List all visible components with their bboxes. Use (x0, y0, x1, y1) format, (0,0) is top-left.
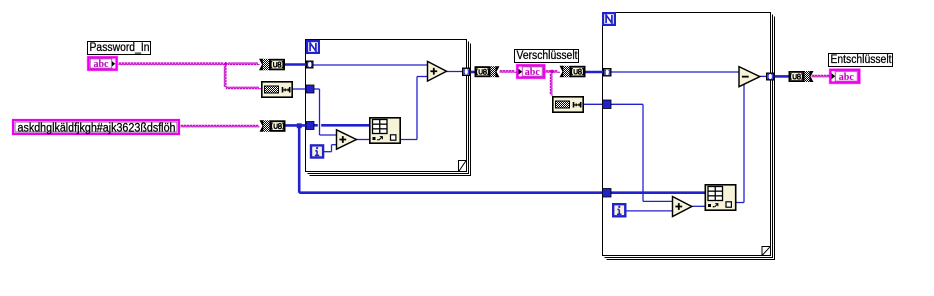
wire string Byte-Array-To-String 2 to Entschlüsselt (812, 75, 830, 77)
svg-text:Verschlüsselt: Verschlüsselt (517, 50, 579, 62)
tunnel loop2 length in (603, 100, 612, 109)
wire length tunnel to elbow to add A1 (313, 89, 337, 135)
wire string Byte-Array-To-String 1 to Verschlüsselt (500, 71, 517, 73)
for loop 1 count terminal N (306, 40, 320, 54)
junction key bytes (297, 123, 302, 128)
for loop 2 count terminal N (602, 12, 616, 26)
wire key array inside loop1 to Index Array 1 (314, 124, 371, 127)
for loop 1 border (306, 40, 471, 176)
junction Verschlüsselt wire (550, 69, 555, 74)
wire loop1 indexed byte to add A2 (313, 64, 428, 66)
tunnel loop2 auto-index out (766, 73, 775, 81)
node add A1 (337, 130, 357, 149)
label Entschlüsselt (829, 54, 893, 67)
wire string junction down (224, 66, 226, 88)
wire key bytes bottom run to loop2 (299, 191, 603, 194)
wire length tunnel2 elbow to add A3 (611, 104, 674, 201)
wire string junction 2 down to String Length 2 (550, 74, 552, 97)
wire byte-array U1 to loop1 tunnel (284, 63, 306, 66)
tunnel loop1 auto-index in (password) (306, 61, 314, 69)
for loop 2 border (603, 13, 775, 260)
svg-text:Entschlüsselt: Entschlüsselt (831, 54, 893, 66)
wire Index Array 2 out up to subtract (736, 84, 745, 202)
svg-text:Password_In: Password_In (90, 42, 150, 54)
node subtract SB1 (739, 67, 760, 87)
tunnel loop1 auto-index out (462, 68, 471, 77)
node Index Array IA2 (705, 185, 735, 210)
wire loop2 out tunnel to U5 (774, 75, 790, 78)
tunnel loop2 auto-index in (603, 68, 612, 77)
string control Password_In (87, 56, 118, 71)
wire key bytes U3 to junction to loop1 tunnel (285, 124, 307, 127)
label Verschlüsselt (515, 50, 579, 63)
wire add A3 to Index Array 2 index (691, 205, 706, 207)
string indicator Entschlüsselt (829, 69, 861, 85)
node add A2 (428, 61, 447, 81)
node String-To-Byte-Array U4 (560, 66, 586, 78)
string constant key askdhglkäldfjkgh#ajk3623ßdsflöh (13, 120, 179, 134)
tunnel loop1 length in (306, 85, 314, 93)
wire string Password_In to junction (119, 63, 226, 65)
svg-text:askdhglkäldfjkgh#ajk3623ßdsflö: askdhglkäldfjkgh#ajk3623ßdsflöh (18, 122, 176, 134)
node Index Array IA1 (370, 118, 400, 143)
node Byte-Array-To-String U5 (789, 71, 814, 82)
wire length2 to loop2 tunnel (584, 103, 604, 105)
svg-text:abc: abc (525, 67, 540, 78)
wire subtract to loop2 out tunnel (759, 75, 767, 77)
node String-To-Byte-Array U3 (key) (260, 120, 286, 132)
wire string junction to String Length 1 (226, 87, 262, 89)
string indicator Verschlüsselt (516, 64, 546, 79)
wire string junction to String-To-Byte-Array 1 (228, 63, 260, 65)
for loop 2 iteration terminal i (612, 203, 627, 218)
wire key bytes down (298, 126, 301, 193)
node String Length L1 (262, 82, 292, 97)
wire add A2 output to out tunnel (446, 71, 463, 73)
svg-text:abc: abc (839, 72, 854, 83)
wire string key constant to String-To-Byte-Array 2 (181, 125, 260, 127)
junction password wire (223, 62, 228, 67)
wire loop1 out tunnel to U2 (470, 71, 476, 74)
node String Length L2 (553, 97, 583, 112)
wire length1 to loop1 tunnel (293, 88, 307, 90)
tunnel loop2 key array in (603, 189, 612, 198)
node add A3 (673, 197, 692, 217)
label Password_In (88, 42, 151, 55)
wire string Verschlüsselt to junction 2 (546, 71, 561, 73)
wire Index Array 1 out up to add A2 (400, 77, 428, 140)
svg-text:abc: abc (93, 59, 108, 70)
wire i1 to add A1 (324, 145, 338, 152)
wire i2 to add A3 (626, 210, 673, 212)
wire loop2 indexed byte to subtract (611, 71, 740, 73)
node Byte-Array-To-String U2 (475, 66, 500, 77)
wire add A1 to Index Array 1 index (356, 139, 371, 141)
node String-To-Byte-Array U1 (259, 59, 285, 71)
tunnel loop1 key array in (306, 122, 314, 130)
for loop 1 iteration terminal i (310, 144, 325, 159)
wire key array inside loop2 to Index Array 2 (610, 191, 706, 194)
wire U4 to loop2 in tunnel (585, 71, 604, 74)
